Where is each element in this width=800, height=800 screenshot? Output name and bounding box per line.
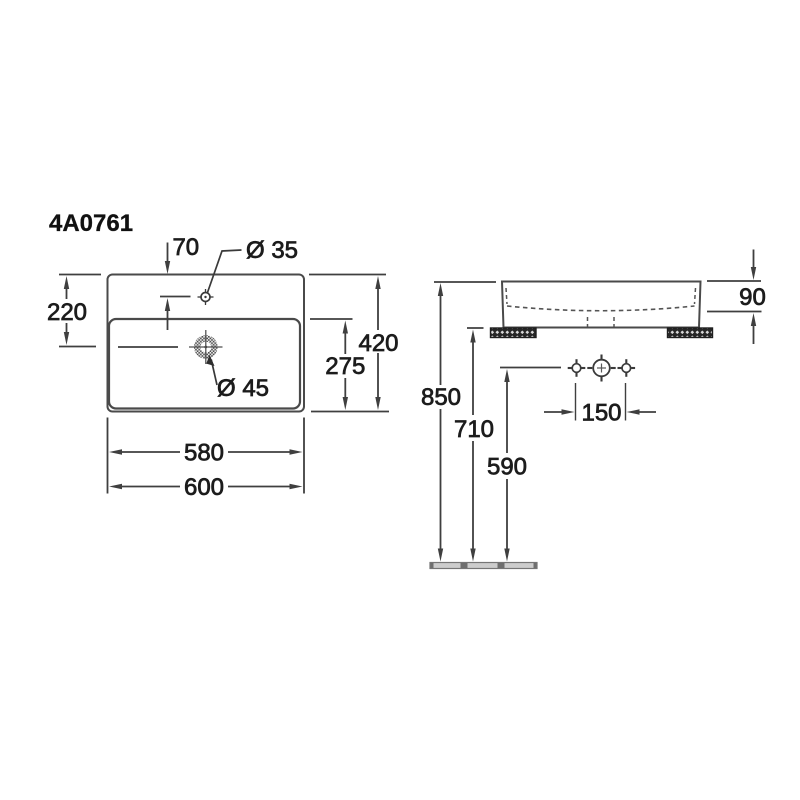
svg-text:Ø 45: Ø 45 [217,375,269,402]
svg-text:710: 710 [454,416,494,443]
svg-text:275: 275 [325,353,365,380]
svg-text:220: 220 [47,299,87,326]
svg-text:590: 590 [487,454,527,481]
svg-text:580: 580 [184,440,224,467]
svg-text:70: 70 [172,234,199,261]
svg-text:150: 150 [581,400,621,427]
svg-text:850: 850 [421,384,461,411]
svg-text:4A0761: 4A0761 [49,210,133,237]
svg-text:600: 600 [184,474,224,501]
svg-text:Ø 35: Ø 35 [246,237,298,264]
svg-text:90: 90 [739,284,766,311]
